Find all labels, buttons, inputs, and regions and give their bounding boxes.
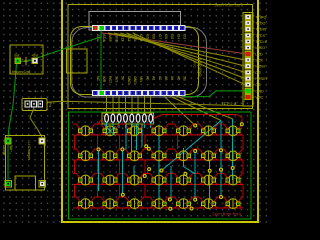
svg-text:+Bat: +Bat — [31, 54, 38, 58]
svg-text:LED: LED — [255, 52, 263, 56]
svg-text:T_CS: T_CS — [255, 34, 265, 38]
svg-text:SS: SS — [183, 76, 187, 81]
svg-text:D6: D6 — [164, 35, 168, 40]
svg-text:IOR: IOR — [102, 76, 106, 83]
svg-text:A5: A5 — [176, 76, 180, 80]
svg-text:Li Charger: Li Charger — [27, 142, 31, 160]
svg-text:MOSI: MOSI — [255, 65, 265, 69]
svg-text:1: 1 — [28, 91, 32, 93]
svg-text:GND: GND — [133, 76, 137, 84]
svg-text:D8: D8 — [152, 35, 156, 40]
svg-text:NC: NC — [96, 76, 100, 82]
svg-text:3V3: 3V3 — [114, 76, 118, 82]
svg-text:DC: DC — [255, 71, 261, 75]
svg-text:D9: D9 — [145, 35, 149, 40]
svg-text:T_DIN: T_DIN — [255, 28, 266, 32]
svg-text:2: 2 — [34, 91, 38, 93]
svg-text:SDA: SDA — [102, 35, 106, 43]
svg-text:ARF: ARF — [108, 35, 112, 43]
svg-text:A2: A2 — [158, 76, 162, 80]
svg-text:T_IRQ: T_IRQ — [255, 15, 266, 19]
svg-text:T_DO: T_DO — [255, 21, 265, 25]
svg-text:A0: A0 — [145, 76, 149, 80]
svg-text:A4: A4 — [170, 76, 174, 80]
svg-text:CS: CS — [255, 83, 261, 87]
svg-text:3: 3 — [41, 91, 45, 93]
svg-text:MISO: MISO — [255, 46, 265, 50]
svg-text:RESET: RESET — [255, 77, 268, 81]
svg-text:SCK: SCK — [255, 58, 263, 62]
svg-text:5V: 5V — [121, 76, 125, 81]
svg-text:A3: A3 — [164, 76, 168, 80]
svg-text:VIN: VIN — [139, 76, 143, 82]
svg-text:.Bat: .Bat — [14, 54, 20, 58]
svg-text:GND: GND — [255, 89, 264, 93]
svg-text:Charge: Charge — [2, 145, 6, 156]
svg-text:Seen from front: Seen from front — [214, 3, 244, 8]
svg-text:In+: In+ — [43, 145, 47, 150]
svg-text:Lithium Cell: Lithium Cell — [10, 69, 31, 74]
svg-text:GND: GND — [127, 76, 131, 84]
svg-text:D7: D7 — [158, 35, 162, 40]
svg-text:D3: D3 — [183, 35, 187, 40]
svg-text:Seen from front: Seen from front — [212, 211, 242, 216]
svg-text:D4: D4 — [176, 35, 180, 40]
svg-text:RST: RST — [108, 76, 112, 84]
svg-text:T_CLK: T_CLK — [255, 40, 267, 44]
svg-text:VCC: VCC — [255, 96, 263, 100]
svg-text:Bat+: Bat+ — [9, 146, 13, 153]
svg-text:A1: A1 — [152, 76, 156, 80]
svg-text:1: 1 — [244, 99, 246, 103]
svg-text:D5: D5 — [170, 35, 174, 40]
svg-text:Pot: Pot — [48, 103, 52, 108]
